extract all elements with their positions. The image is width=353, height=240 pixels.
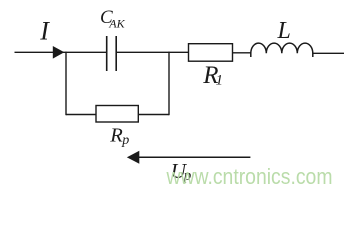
wire: left input segment [15,51,67,53]
wire: bottom branch left [66,114,96,116]
voltage arrow Up (points left) [138,156,250,158]
svg-text:p: p [121,133,129,148]
svg-text:AK: AK [108,16,125,30]
inductor L (4 humps) [251,43,313,57]
svg-text:1: 1 [216,73,224,89]
svg-text:www.cntronics.com: www.cntronics.com [166,164,333,189]
wire: inductor to right edge [313,52,344,54]
capacitor C_AK plates [106,36,108,71]
node A: junction left, vertical wire down [65,52,67,116]
svg-text:I: I [39,17,50,46]
wire: R1 to inductor [233,52,252,54]
current arrow I (arrowhead on input wire) [53,46,65,59]
wire: capacitor to R1 [116,51,188,53]
svg-text:L: L [277,18,291,44]
resistor R1 (box) [189,44,233,62]
node B: junction right, vertical wire down [168,52,170,116]
svg-text:R: R [109,125,123,147]
wire: bottom branch right [138,114,169,116]
resistor Rp (box) [96,106,138,123]
wire: junction to capacitor left plate [66,51,106,53]
